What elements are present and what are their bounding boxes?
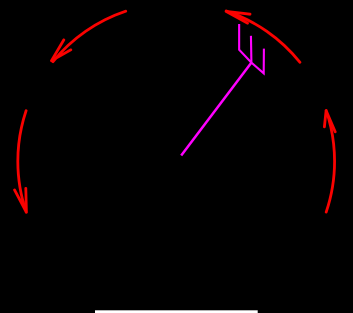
red rotation arrow right (arc) (324, 111, 335, 213)
magenta hand tip right prong (251, 49, 264, 74)
red rotation arrow left (arc) (15, 111, 27, 213)
magenta hand tip middle prong (250, 36, 253, 63)
arrowhead of right arrow (324, 111, 335, 132)
arrowhead of top-right arrow (226, 11, 250, 23)
magenta hand tip left prong (239, 24, 251, 63)
red rotation arrow top-left (arc) (52, 11, 126, 62)
white bar bottom (95, 310, 258, 313)
arrowhead of top-left arrow (52, 40, 71, 61)
arrowhead of left arrow (15, 188, 27, 212)
magenta hand staff (181, 24, 264, 156)
red rotation arrow top-right (arc) (226, 11, 300, 62)
